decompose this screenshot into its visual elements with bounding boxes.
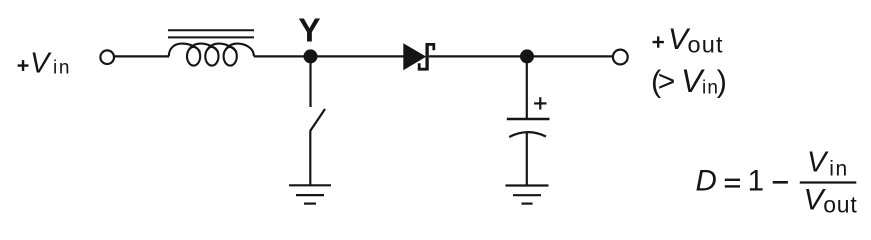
capacitor C1 top plate (507, 118, 550, 120)
diode D1 Schottky top hook (427, 44, 434, 50)
output terminal (613, 50, 628, 65)
svg-text:>: > (658, 65, 676, 98)
equation fraction bar (800, 181, 857, 183)
equation D = 1 - Vin/Vout (696, 146, 858, 217)
capacitor C1 plus sign (534, 97, 546, 109)
capacitor C1 curved plate (509, 132, 546, 137)
svg-text:in: in (829, 158, 848, 181)
ground (below capacitor) (506, 186, 549, 204)
svg-text:Y: Y (298, 12, 320, 49)
svg-text:1: 1 (748, 164, 764, 197)
inductor core line lower (168, 36, 254, 38)
label (> Vin) (651, 63, 727, 99)
switch S1 blade (310, 109, 325, 131)
svg-text:D: D (696, 165, 717, 198)
wire node Y to diode (311, 55, 405, 57)
wire node Y down to switch (309, 56, 311, 107)
svg-text:in: in (53, 58, 71, 79)
wire input terminal to inductor (114, 55, 169, 57)
wire output node down to capacitor (526, 56, 528, 119)
wire diode to output node (429, 55, 527, 57)
output node junction dot (520, 49, 534, 63)
diode D1 Schottky bottom hook (419, 63, 427, 69)
inductor core line upper (168, 29, 254, 31)
ground (below switch) (289, 185, 331, 203)
svg-text:V: V (807, 146, 829, 178)
label +Vout (653, 23, 724, 57)
inductor L1 coil (169, 44, 254, 66)
diode D1 Schottky cathode bar (425, 43, 428, 71)
label Y (298, 12, 320, 49)
svg-text:out: out (688, 32, 724, 58)
label +Vin (18, 47, 72, 79)
diode D1 anode triangle (403, 43, 426, 70)
svg-text:): ) (717, 65, 727, 99)
node Y junction dot (304, 49, 318, 63)
wire output node to output terminal (527, 55, 613, 57)
svg-text:out: out (823, 192, 857, 218)
input terminal (100, 50, 114, 64)
wire capacitor to ground (526, 132, 528, 186)
svg-text:V: V (30, 47, 52, 79)
wire inductor to node Y (254, 55, 311, 57)
wire switch to ground (309, 131, 311, 186)
